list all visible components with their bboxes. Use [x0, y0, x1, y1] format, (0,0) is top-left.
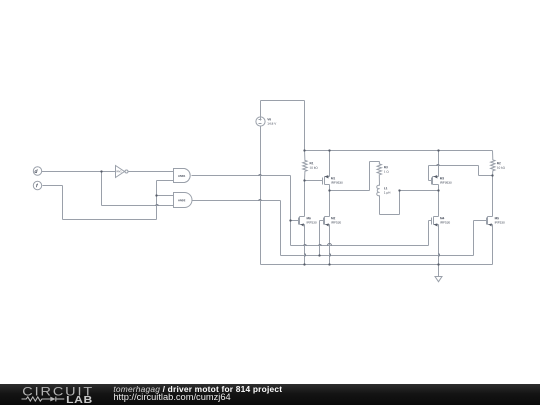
label R2 value: [497, 167, 505, 169]
node M1 gate junction: [303, 179, 305, 181]
wire bus B (AND2 net): [281, 255, 474, 257]
inductor L1: [377, 185, 380, 195]
wire M1 drain down: [329, 185, 331, 191]
wire f vertical: [62, 186, 64, 220]
wire ground bus: [261, 264, 493, 266]
hop M4 ground lead over bus B: [439, 254, 440, 257]
wire f riser: [156, 181, 158, 220]
label M1: [331, 177, 335, 179]
label M4 value: [440, 221, 450, 223]
junction dots: [100, 149, 493, 265]
hop M3 gate bus over M3 source: [437, 164, 440, 165]
label M5 value: [495, 221, 505, 223]
and-gate AND2 body: [174, 193, 193, 208]
wire M3 gate stub: [429, 180, 432, 182]
wire V6 top vertical: [260, 101, 262, 117]
transistor M2 (NMOS): [324, 217, 330, 227]
wire f bottom horizontal: [63, 219, 157, 221]
wire AND2 upper input: [157, 195, 174, 197]
wire M4 source down to ground: [438, 225, 440, 277]
resistor R2: [491, 151, 495, 176]
wire M1-M2 link: [329, 191, 331, 217]
wire V6 feed down to rail: [304, 101, 306, 151]
wire M3 gate riser up: [428, 166, 430, 181]
node M6 gate junction: [289, 219, 291, 221]
transistor M1 (PMOS): [323, 175, 330, 184]
wire M6 source down: [304, 225, 306, 265]
hop M6 source over bus B: [305, 254, 306, 257]
transistor M5 (NMOS): [487, 217, 493, 227]
ground symbol: [435, 277, 442, 282]
label d: [35, 169, 38, 173]
hop M2 source over bus B: [330, 254, 331, 257]
node d port: [33, 167, 41, 175]
hop AND1 output over V6 lead: [259, 174, 262, 175]
wire R2 to M5 drain: [492, 176, 494, 217]
label R3 value: [384, 171, 389, 173]
hop bus A over M6 source: [304, 244, 307, 245]
node M3 drain junction: [437, 189, 439, 191]
wire M6 gate: [291, 220, 299, 222]
node rail R1 junction: [303, 149, 305, 151]
label M6: [307, 217, 311, 219]
node M2 gate bus junction: [318, 254, 320, 256]
node rail M3 source junction: [437, 149, 439, 151]
label L1 value: [384, 191, 390, 194]
wire M2 gate riser: [319, 221, 321, 256]
label L1: [384, 187, 387, 189]
resistor R3: [377, 162, 381, 186]
resistor R1: [303, 151, 307, 181]
label INV1: [117, 171, 122, 173]
wire M1 gate: [305, 180, 323, 182]
wire M4 gate riser: [428, 221, 430, 246]
wire snubber top: [370, 161, 380, 163]
wire M2 source down: [329, 225, 331, 265]
label M4: [440, 217, 444, 219]
hop bus A over M2 gate riser: [319, 244, 322, 245]
svg-text:LAB: LAB: [66, 395, 93, 405]
wire M3 source up: [438, 151, 440, 177]
label V6: [267, 118, 271, 120]
and-gate AND1 body: [174, 169, 191, 183]
transistor M3 (PMOS): [432, 175, 439, 184]
label AND1: [178, 175, 185, 177]
schematic text labels: [35, 118, 505, 223]
wire snubber riser left: [369, 162, 371, 191]
wire V6 ground lead: [260, 126, 262, 265]
label M3: [440, 177, 444, 179]
label M2 value: [331, 221, 341, 223]
wire top rail: [305, 150, 493, 152]
wire V6 top horizontal: [261, 100, 305, 102]
wire snubber bottom: [380, 214, 400, 216]
hop AND2 output over V6 lead: [259, 199, 262, 200]
label M6 value: [307, 221, 317, 223]
label R1 value: [310, 167, 318, 169]
wire d branch vertical: [101, 172, 103, 206]
wire M3 drain down: [438, 185, 440, 191]
label M1 value: [331, 181, 342, 183]
wire M2 gate stub: [320, 220, 324, 222]
wire M5 source down: [492, 225, 494, 265]
wire M5 gate riser: [473, 221, 475, 256]
wire M3 gate bus to R2: [479, 175, 493, 177]
wire inverter output to AND1 upper input: [129, 171, 174, 173]
transistor M4 (NMOS): [432, 217, 439, 227]
wire M5 gate stub: [474, 220, 487, 222]
node snubber right junction: [398, 189, 400, 191]
node rail M1 source junction: [328, 149, 330, 151]
transistor M6 (NMOS): [299, 217, 305, 227]
inverter INV1: [116, 166, 129, 178]
node ground bus M6 junction: [303, 263, 305, 265]
wire M3 gate bus horizontal: [429, 165, 479, 167]
wire AND1 lower input: [157, 180, 174, 182]
wire AND1 riser down: [290, 176, 292, 246]
node ground bus M4 junction: [437, 263, 439, 265]
node d branch junction: [100, 170, 102, 172]
wire M3 gate bus down: [478, 166, 480, 176]
label M2: [331, 217, 335, 219]
label f: [36, 184, 38, 188]
label M5: [495, 217, 499, 219]
label R2: [497, 162, 501, 164]
label R1: [310, 162, 314, 164]
node R2 bottom junction: [491, 174, 493, 176]
wire AND2 output: [192, 200, 281, 202]
wire f horizontal: [43, 185, 63, 187]
voltage source V6: [256, 117, 265, 126]
node f to AND2 upper junction: [155, 194, 157, 196]
wire gate node down to M6 drain: [304, 181, 306, 217]
wire d to inverter: [42, 171, 116, 173]
hop d-line over f riser: [156, 204, 159, 205]
wire L1 bottom: [379, 196, 381, 215]
label R3: [384, 166, 388, 168]
wire AND1 output: [192, 175, 291, 177]
label AND2: [178, 199, 185, 201]
label M3 value: [440, 181, 451, 183]
wire motor node left: [330, 190, 370, 192]
node M1 drain junction: [328, 189, 330, 191]
label V6 value: [268, 122, 277, 124]
wire motor node right: [400, 190, 439, 192]
wire AND2 riser down: [280, 201, 282, 256]
wire d branch horizontal to AND2 lower input: [102, 205, 174, 207]
node f port: [33, 181, 41, 189]
wire M1 source up: [329, 151, 331, 177]
hop bumps (non-connecting crossings): [156, 164, 440, 256]
hop bus A over M2 source: [328, 244, 332, 246]
wire M3-M4 link: [438, 191, 440, 217]
node ground bus M2 junction: [328, 263, 330, 265]
wire snubber riser right: [399, 191, 401, 215]
wire bus A (AND1 net): [291, 245, 429, 247]
wire M4 gate stub: [429, 220, 432, 222]
